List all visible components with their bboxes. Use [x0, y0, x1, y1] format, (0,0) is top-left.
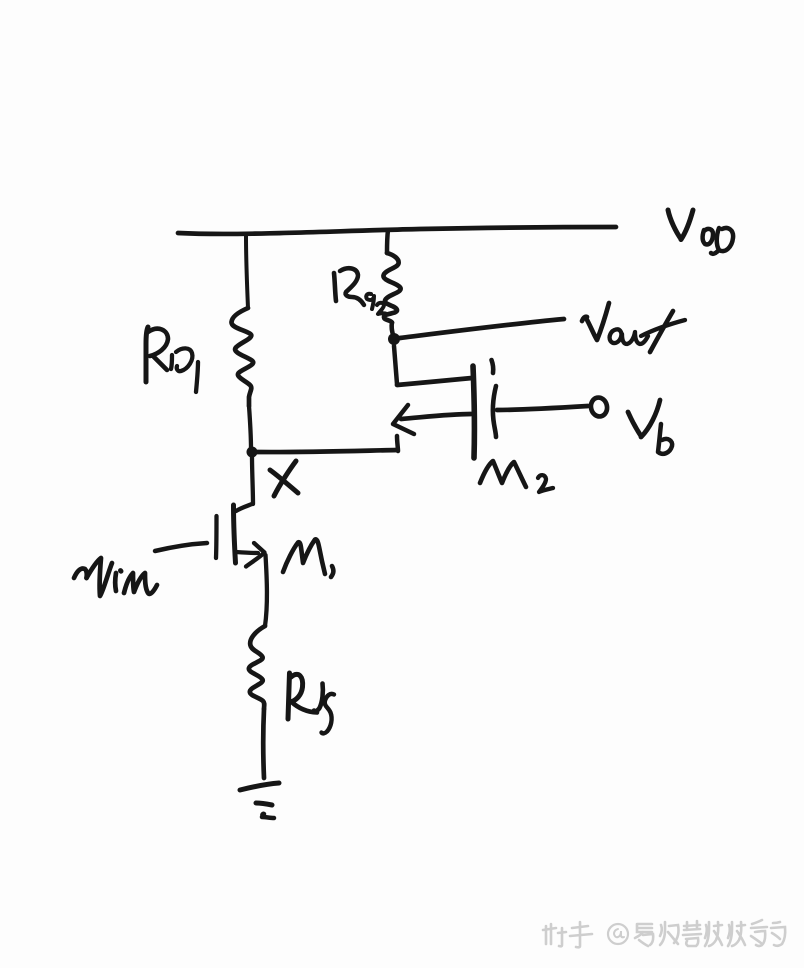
wire M2 source lead — [401, 414, 471, 419]
node Vout junction dot — [388, 333, 400, 345]
resistor RS — [249, 626, 265, 709]
wire node to M2 drain — [394, 346, 472, 385]
wire RD2 drain branch from rail — [387, 230, 388, 253]
wire Vout output — [400, 319, 564, 338]
M2 label — [480, 461, 553, 492]
RS label — [288, 673, 334, 733]
transistor M1 — [216, 504, 267, 626]
wire node X to M2 source — [256, 450, 397, 452]
watermark Zhihu — [543, 920, 785, 947]
wire RS to ground — [261, 709, 266, 778]
wire VDD rail — [178, 227, 616, 234]
RD1 label — [146, 327, 198, 392]
transistor M2 channel bar — [473, 366, 474, 458]
resistor RD1 — [231, 308, 253, 406]
RD2 label — [334, 268, 387, 314]
VDD label — [668, 210, 733, 254]
terminal Vb circle — [589, 396, 609, 418]
Vout label — [582, 303, 685, 352]
Vin label — [74, 558, 157, 596]
wire Vin gate lead — [155, 543, 207, 551]
M1 label — [283, 539, 333, 577]
node X junction dot — [247, 447, 258, 458]
wire M2 gate to Vb terminal — [497, 406, 588, 410]
transistor M2 gate dash — [492, 360, 494, 373]
ground — [240, 783, 279, 818]
transistor M2 gate bar — [493, 386, 496, 437]
node X label — [270, 461, 298, 496]
M2 source arrow — [393, 405, 414, 434]
wire RD1 to node X — [249, 406, 251, 449]
wire node X to M1 drain — [252, 457, 253, 504]
wire M2 source down to node X wire — [397, 436, 398, 451]
wire RD1 drain branch from rail — [246, 236, 248, 308]
resistor RD2 — [383, 253, 400, 335]
Vb label — [628, 400, 672, 454]
